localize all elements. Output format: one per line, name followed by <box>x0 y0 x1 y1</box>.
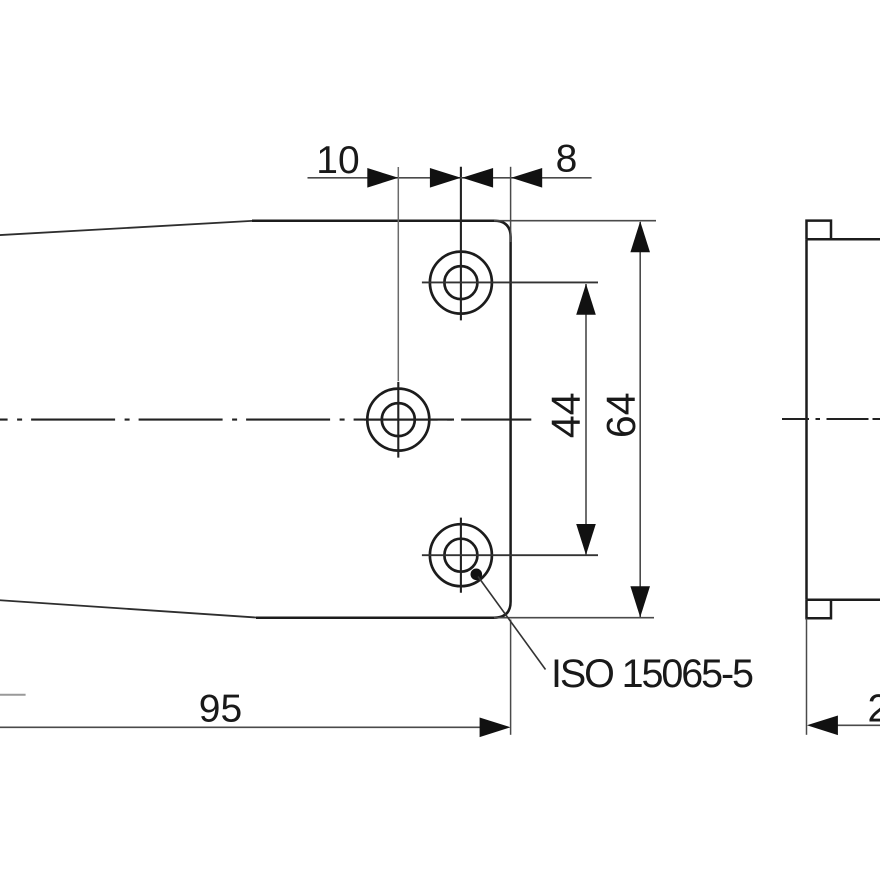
44 dimension line <box>585 284 587 555</box>
side view top tab <box>807 221 832 240</box>
horizontal centerline of front view (dash-dot) <box>0 419 531 421</box>
64 dimension line <box>639 222 641 617</box>
top hole inner circle <box>444 266 477 299</box>
middle hole vertical centerline <box>397 382 399 458</box>
top dimension line for 10 and 8 <box>308 177 592 179</box>
tapered top edge of leaf <box>0 221 252 235</box>
svg-text:8: 8 <box>556 138 578 181</box>
side view bottom face line <box>807 598 880 601</box>
extension line of top edge for 64 dimension <box>494 220 656 222</box>
svg-text:20: 20 <box>868 688 880 731</box>
top hole vertical centerline <box>460 167 462 321</box>
svg-text:ISO 15065-5: ISO 15065-5 <box>551 652 753 696</box>
top hole horizontal centerline / extension to 44 dimension <box>422 281 598 283</box>
middle hole inner circle <box>382 403 415 436</box>
arrowhead 10 left <box>367 168 398 188</box>
side view bottom tab <box>807 600 832 619</box>
extension line middle hole column <box>397 167 399 381</box>
extension line of bottom edge for 64 dimension <box>494 617 654 619</box>
arrowhead 64 bottom <box>630 586 650 617</box>
top hole outer circle <box>430 252 492 314</box>
svg-text:95: 95 <box>199 688 242 731</box>
arrowhead 44 top <box>576 284 596 315</box>
side view left edge <box>805 239 808 600</box>
arrowhead 8 left <box>462 168 493 188</box>
arrowhead 64 top <box>630 221 650 252</box>
arrowhead side dimension left <box>807 716 838 736</box>
side view bottom dimension line <box>836 724 880 726</box>
middle hole outer circle <box>367 389 429 451</box>
bottom hole horizontal centerline / extension to 44 dimension <box>422 554 598 556</box>
leader line to ISO label <box>478 577 546 670</box>
arrowhead 95 right <box>480 718 511 738</box>
bottom hole inner circle <box>444 539 477 572</box>
95 dimension line <box>0 726 482 728</box>
side view top face line <box>807 238 880 241</box>
middle hole horizontal centerline <box>364 419 454 421</box>
tapered bottom edge of leaf <box>0 600 256 618</box>
hinge leaf outline (front view, flat right portion with rounded corners) <box>252 221 511 618</box>
arrowhead 10 right <box>430 168 461 188</box>
bottom hole outer circle <box>430 524 492 586</box>
leader reference dot on bottom hole <box>471 569 483 581</box>
extension line below side view left edge <box>806 618 808 734</box>
arrowhead 8 right <box>511 168 542 188</box>
extension line below plate right edge <box>510 620 512 735</box>
arrowhead 44 bottom <box>576 524 596 555</box>
svg-text:44: 44 <box>543 392 589 438</box>
bottom hole vertical centerline <box>460 518 462 593</box>
gray stub line bottom left <box>0 694 26 696</box>
svg-text:10: 10 <box>316 139 359 182</box>
extension line plate right edge <box>510 167 512 242</box>
svg-text:64: 64 <box>598 392 644 438</box>
side view horizontal centerline (dash-dot) <box>782 418 880 420</box>
